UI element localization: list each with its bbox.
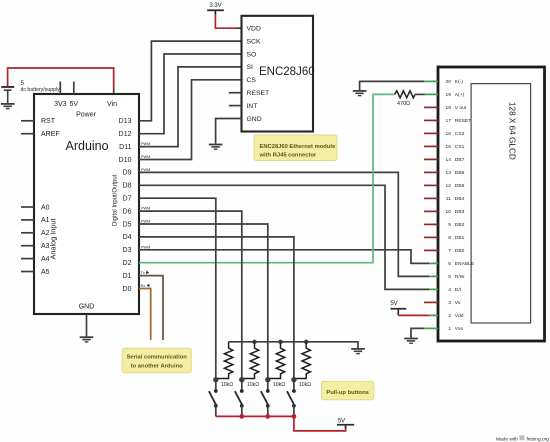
- ENC VDD stub: [236, 27, 242, 29]
- ground G1 (battery): [1, 103, 15, 109]
- wire GLCD K(-) to ground: [360, 81, 424, 90]
- svg-text:20: 20: [446, 79, 452, 85]
- junction dots red: [239, 414, 296, 419]
- svg-text:A1: A1: [41, 217, 50, 224]
- svg-text:Rx: Rx: [141, 284, 146, 288]
- svg-text:D12: D12: [119, 131, 132, 138]
- svg-text:DB2: DB2: [455, 222, 465, 228]
- svg-text:6: 6: [448, 261, 451, 267]
- svg-text:5: 5: [448, 274, 451, 280]
- wire resistor top rail to ground: [229, 342, 358, 348]
- svg-text:Vss: Vss: [455, 326, 464, 332]
- ground G3 (arduino): [80, 336, 94, 342]
- ENC INT stub: [229, 105, 242, 107]
- svg-text:RESET: RESET: [247, 90, 270, 97]
- svg-text:D4: D4: [123, 234, 132, 241]
- pushbutton S2: [235, 380, 244, 417]
- svg-text:13: 13: [446, 170, 452, 176]
- svg-text:5V: 5V: [70, 101, 79, 108]
- svg-text:PWM: PWM: [141, 220, 150, 224]
- svg-text:Vdd: Vdd: [455, 313, 464, 319]
- svg-text:D2: D2: [123, 260, 132, 267]
- svg-text:3: 3: [448, 300, 451, 306]
- wire D11 to ENC SI: [139, 67, 242, 147]
- svg-text:7: 7: [448, 248, 451, 254]
- svg-text:DB7: DB7: [455, 157, 465, 163]
- svg-text:GND: GND: [247, 116, 262, 123]
- svg-text:D6: D6: [123, 208, 132, 215]
- svg-text:D13: D13: [119, 118, 132, 125]
- svg-text:14: 14: [446, 157, 452, 163]
- svg-text:D8: D8: [123, 183, 132, 190]
- svg-text:Power: Power: [76, 112, 97, 119]
- svg-text:Analog Input: Analog Input: [49, 219, 58, 260]
- svg-text:A(+): A(+): [455, 92, 465, 98]
- svg-text:A5: A5: [41, 269, 50, 276]
- resistor R3 10k: [268, 342, 285, 388]
- battery BT1 dc battery/supply: [1, 81, 60, 103]
- Arduino pin A3: [21, 243, 50, 250]
- pushbutton S4: [287, 380, 296, 417]
- svg-text:5V: 5V: [390, 301, 397, 307]
- GLCD unconnected stubs red: [424, 107, 438, 302]
- Arduino pin A1: [21, 217, 50, 224]
- svg-text:18: 18: [446, 105, 452, 111]
- pushbutton S1: [209, 380, 218, 417]
- svg-text:15: 15: [446, 144, 452, 150]
- wire D5 down to button 3: [139, 224, 268, 380]
- svg-text:D/I: D/I: [455, 287, 461, 293]
- svg-text:10kΩ: 10kΩ: [221, 382, 233, 388]
- GLCD pin labels: [446, 79, 475, 332]
- svg-text:16: 16: [446, 131, 452, 137]
- svg-text:Digital Input/Output: Digital Input/Output: [113, 174, 119, 226]
- svg-text:Pull-up buttons: Pull-up buttons: [326, 390, 369, 396]
- svg-text:Serial communication: Serial communication: [127, 354, 188, 360]
- svg-text:DB3: DB3: [455, 209, 465, 215]
- svg-text:19: 19: [446, 92, 452, 98]
- svg-text:A4: A4: [41, 256, 50, 263]
- wire resistor to pin19: [415, 93, 425, 95]
- wire battery to Vin (red): [8, 68, 114, 89]
- svg-text:RST: RST: [41, 118, 56, 125]
- svg-text:PWM: PWM: [141, 245, 150, 249]
- resistor R1 10k: [216, 342, 233, 388]
- wire D7 down to button 1: [139, 198, 216, 380]
- wire ENC GND to ground: [216, 119, 242, 144]
- ground G5 (backlight): [353, 90, 367, 96]
- svg-text:9: 9: [448, 222, 451, 228]
- wire D9 to GLCD R/W: [139, 172, 429, 276]
- svg-text:8: 8: [448, 235, 451, 241]
- wire D6 down to button 2: [139, 211, 242, 380]
- svg-text:PWM: PWM: [141, 168, 150, 172]
- svg-text:470Ω: 470Ω: [397, 101, 410, 107]
- svg-text:Vo: Vo: [455, 300, 461, 306]
- svg-text:4: 4: [448, 287, 451, 293]
- svg-text:Made with: Made with: [496, 436, 518, 442]
- Arduino D pin labels: [119, 118, 132, 293]
- wire D3 to GLCD ENABLE: [139, 250, 429, 264]
- wire D10 to ENC CS: [139, 80, 242, 160]
- wire D8 to GLCD D/I: [139, 185, 429, 289]
- RX tag: [141, 284, 150, 288]
- watermark: [496, 435, 549, 442]
- svg-text:D9: D9: [123, 170, 132, 177]
- note serial communication: [122, 348, 191, 372]
- svg-text:DB4: DB4: [455, 196, 465, 202]
- Arduino pin A0: [21, 204, 50, 211]
- svg-text:AREF: AREF: [41, 131, 60, 138]
- svg-text:D10: D10: [119, 157, 132, 164]
- svg-text:GND: GND: [79, 304, 95, 311]
- svg-text:VDD: VDD: [247, 26, 261, 33]
- svg-text:A3: A3: [41, 243, 50, 250]
- svg-text:CS2: CS2: [455, 131, 465, 137]
- ground G4 (rail): [351, 348, 365, 354]
- junction node dots: [213, 377, 296, 382]
- svg-text:D1: D1: [123, 273, 132, 280]
- svg-text:DB0: DB0: [455, 248, 465, 254]
- svg-text:RESET: RESET: [455, 118, 471, 124]
- Arduino pin 3V3 stub: [59, 82, 61, 95]
- svg-text:5V: 5V: [338, 418, 345, 424]
- Arduino pin A2: [21, 230, 50, 237]
- Arduino pin RST: [21, 118, 56, 125]
- svg-text:DB5: DB5: [455, 183, 465, 189]
- wire GLCD Vss to ground: [411, 328, 424, 337]
- svg-text:dc battery/supply: dc battery/supply: [21, 87, 61, 93]
- svg-text:2: 2: [448, 313, 451, 319]
- svg-text:128 X 64 GLCD: 128 X 64 GLCD: [508, 102, 517, 160]
- GLCD pin stubs green: [424, 81, 438, 328]
- wire Arduino GND down: [86, 314, 88, 337]
- svg-text:SO: SO: [247, 51, 257, 58]
- wire button rail to 5V (red): [216, 416, 346, 431]
- 5V supply (GLCD Vdd): [390, 301, 406, 315]
- ground G6 (Vss): [404, 338, 418, 344]
- svg-text:D5: D5: [123, 221, 132, 228]
- svg-text:CS1: CS1: [455, 144, 465, 150]
- svg-text:V out: V out: [455, 105, 467, 111]
- resistor R4 10k: [294, 342, 311, 388]
- svg-text:1: 1: [448, 326, 451, 332]
- svg-text:3.3V: 3.3V: [209, 3, 221, 9]
- ENC RESET stub: [229, 92, 242, 94]
- svg-text:to another Arduino: to another Arduino: [131, 363, 183, 369]
- svg-text:17: 17: [446, 118, 452, 124]
- pushbutton S3: [261, 380, 270, 417]
- svg-text:Tx: Tx: [141, 271, 145, 275]
- svg-text:K(-): K(-): [455, 79, 464, 85]
- ground G2 (ENC): [209, 144, 223, 150]
- svg-text:A2: A2: [41, 230, 50, 237]
- note ENC28J60 module: [254, 135, 337, 161]
- svg-text:PWM: PWM: [141, 207, 150, 211]
- svg-text:Arduino: Arduino: [66, 139, 109, 153]
- svg-text:Vin: Vin: [107, 101, 117, 108]
- svg-text:INT: INT: [247, 103, 258, 110]
- svg-text:R/W: R/W: [455, 274, 465, 280]
- Arduino U1 body: [34, 94, 139, 314]
- svg-text:11: 11: [446, 196, 451, 202]
- Arduino pin AREF: [21, 131, 60, 138]
- Arduino pin 5V stub: [73, 82, 75, 95]
- svg-text:D7: D7: [123, 196, 132, 203]
- svg-text:CS: CS: [247, 77, 257, 84]
- svg-text:PWM: PWM: [141, 155, 150, 159]
- svg-text:fritzing.org: fritzing.org: [527, 436, 550, 442]
- wire D13 to ENC SCK: [139, 41, 242, 121]
- svg-text:DB1: DB1: [455, 235, 465, 241]
- 3.3V supply symbol: [207, 3, 224, 15]
- wire D0 serial (orange): [139, 289, 151, 341]
- svg-text:D11: D11: [119, 144, 131, 151]
- svg-text:ENC28J60 Ethernet module: ENC28J60 Ethernet module: [260, 144, 336, 150]
- wire 5V to GLCD Vdd (red): [398, 314, 429, 316]
- svg-text:3V3: 3V3: [54, 101, 67, 108]
- svg-text:PWM: PWM: [141, 142, 150, 146]
- wire 3.3V to ENC VDD (red): [215, 15, 236, 29]
- resistor R5 470ohm: [395, 91, 415, 107]
- svg-text:SI: SI: [247, 64, 254, 71]
- svg-text:SCK: SCK: [247, 38, 261, 45]
- 5V supply (buttons): [337, 418, 354, 428]
- svg-text:12: 12: [446, 183, 452, 189]
- svg-text:ENC28J60: ENC28J60: [259, 66, 315, 78]
- wire D12 to ENC SO: [139, 54, 242, 134]
- wire D4 down to button 4: [139, 237, 294, 380]
- svg-text:10kΩ: 10kΩ: [247, 382, 259, 388]
- svg-text:D3: D3: [123, 247, 132, 254]
- note pull-up buttons: [322, 381, 374, 399]
- junction dots on rail: [252, 340, 308, 344]
- svg-text:10kΩ: 10kΩ: [273, 382, 285, 388]
- ENC28J60 module U2: [242, 16, 315, 132]
- TX tag: [141, 271, 150, 275]
- GLCD LCD1 body: [438, 67, 545, 341]
- svg-text:A0: A0: [41, 204, 50, 211]
- Arduino pin A5: [21, 269, 50, 276]
- wire D2 to 470 resistor (green): [139, 94, 395, 262]
- resistor R2 10k: [242, 342, 259, 388]
- svg-text:10kΩ: 10kΩ: [299, 382, 311, 388]
- svg-text:D0: D0: [123, 286, 132, 293]
- Arduino pin A4: [21, 256, 50, 263]
- svg-text:with RJ45 connector: with RJ45 connector: [259, 153, 317, 159]
- wire D1 serial (brown): [139, 276, 163, 340]
- svg-text:ENABLE: ENABLE: [455, 261, 475, 267]
- PWM tags: [141, 142, 150, 249]
- svg-text:10: 10: [446, 209, 452, 215]
- svg-text:DB6: DB6: [455, 170, 465, 176]
- wire Vin stub: [113, 89, 115, 95]
